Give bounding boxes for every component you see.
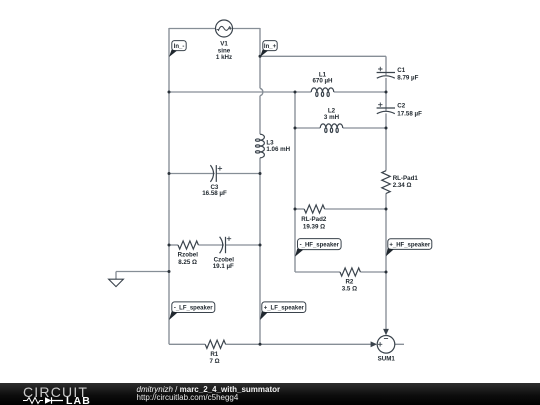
- svg-text:2.34 Ω: 2.34 Ω: [393, 182, 412, 189]
- arrowhead SUM1 left input: [371, 341, 377, 347]
- inductor L3: [256, 134, 265, 158]
- svg-text:16.58 µF: 16.58 µF: [202, 190, 227, 197]
- svg-text:In_-: In_-: [174, 44, 185, 50]
- wire In+ rail upper x=260: [259, 28, 261, 88]
- wire column x=295: [294, 92, 296, 272]
- label L1 value: [312, 71, 333, 84]
- wire In+ rail lower x=260: [259, 158, 261, 344]
- wire top-right V1 to In+ rail: [232, 28, 260, 30]
- svg-text:In_+: In_+: [264, 44, 277, 50]
- CircuitLab logo: [23, 384, 88, 400]
- resistor RL-Pad2: [304, 205, 324, 213]
- wire C1 upper lead: [385, 56, 387, 75]
- svg-text:7 Ω: 7 Ω: [209, 358, 219, 365]
- svg-text:RL-Pad2: RL-Pad2: [301, 216, 327, 223]
- label Czobel value: [213, 257, 234, 270]
- resistor RL-Pad1: [382, 171, 390, 194]
- inductor L1: [311, 88, 334, 97]
- capacitor Czobel: [220, 237, 232, 254]
- resistor R1: [205, 340, 225, 348]
- wire L1 row right segment: [334, 91, 386, 93]
- wire C1 top branch y=56: [260, 55, 386, 57]
- svg-text:+_HF_speaker: +_HF_speaker: [389, 242, 431, 248]
- svg-text:8.79 µF: 8.79 µF: [397, 75, 418, 82]
- summer SUM1: [377, 336, 395, 354]
- wire C2 to RL-Pad1: [385, 113, 387, 170]
- wire RL-Pad1 to RL-Pad2 row: [385, 193, 387, 209]
- wire bottom row to SUM1: [260, 343, 371, 345]
- label L3 value: [266, 139, 290, 153]
- svg-text:19.1 µF: 19.1 µF: [213, 263, 234, 270]
- inductor L2: [320, 124, 343, 133]
- svg-text:C1: C1: [397, 67, 405, 74]
- wire zobel row left segment: [169, 244, 178, 246]
- svg-text:8.25 Ω: 8.25 Ω: [178, 259, 197, 266]
- label C1 value: [397, 67, 418, 82]
- wire hop over L1 row on x=260 rail: [260, 88, 263, 95]
- svg-text:19.39 Ω: 19.39 Ω: [303, 223, 325, 230]
- label RL-Pad2 value: [301, 216, 327, 231]
- label C3 value: [202, 184, 227, 197]
- svg-text:-_LF_speaker: -_LF_speaker: [174, 305, 213, 311]
- label R2 value: [342, 278, 357, 292]
- svg-text:+_LF_speaker: +_LF_speaker: [264, 305, 305, 311]
- capacitor C2: [377, 103, 395, 114]
- label L2 value: [324, 107, 340, 121]
- arrowhead SUM1 top input: [383, 329, 389, 335]
- wire L2 row left segment: [295, 127, 320, 129]
- capacitor C3: [210, 165, 222, 182]
- svg-text:17.58 µF: 17.58 µF: [397, 110, 422, 117]
- wire RL-Pad2 row to R2 row: [385, 209, 387, 272]
- wire ground stem: [115, 272, 117, 280]
- label RL-Pad1 value: [393, 175, 419, 189]
- resistor Rzobel: [178, 241, 198, 249]
- wire bottom row left segment: [169, 343, 205, 345]
- wire left rail x=169: [168, 28, 170, 344]
- svg-text:R1: R1: [210, 351, 218, 358]
- source V1: [216, 20, 233, 37]
- wire R2 row to SUM1: [385, 272, 387, 329]
- label C2 value: [397, 103, 422, 118]
- node flag -_LF_speaker: [169, 302, 215, 320]
- wire L1 row left segment: [169, 91, 311, 93]
- svg-text:SUM1: SUM1: [378, 356, 396, 363]
- label Rzobel value: [178, 252, 199, 266]
- node flag In_-: [169, 41, 186, 57]
- wire top-left V1 to left rail: [169, 28, 216, 30]
- wire zobel row middle segment: [198, 244, 224, 246]
- wire zobel row right segment: [226, 244, 261, 246]
- svg-text:1 kHz: 1 kHz: [216, 54, 232, 61]
- svg-text:3.5 Ω: 3.5 Ω: [342, 286, 357, 293]
- capacitor C1: [377, 67, 395, 78]
- wire SUM1 output stub: [395, 343, 404, 345]
- wire C3 row right segment: [216, 173, 260, 175]
- label R1 value: [209, 351, 219, 365]
- svg-text:Rzobel: Rzobel: [178, 252, 199, 259]
- wire C3 row left segment: [169, 173, 215, 175]
- wire bottom row middle segment: [226, 343, 260, 345]
- wire RL-Pad2 row right segment: [325, 208, 386, 210]
- ground: [109, 279, 124, 286]
- svg-text:3 mH: 3 mH: [324, 114, 340, 121]
- footer bar: [0, 383, 540, 405]
- node flag +_LF_speaker: [260, 302, 306, 320]
- wire C1-C2 link: [385, 78, 387, 111]
- svg-text:RL-Pad1: RL-Pad1: [393, 175, 419, 182]
- svg-text:R2: R2: [345, 278, 353, 285]
- label V1 value: [216, 40, 232, 61]
- wire L2 row right segment: [343, 127, 386, 129]
- resistor R2: [340, 268, 360, 276]
- node flag In_+: [260, 41, 277, 57]
- wire RL-Pad2 row left segment: [295, 208, 304, 210]
- node flag +_HF_speaker: [386, 239, 432, 256]
- svg-text:C2: C2: [397, 103, 405, 110]
- svg-text:670 µH: 670 µH: [312, 78, 333, 85]
- svg-text:-_HF_speaker: -_HF_speaker: [300, 242, 340, 248]
- wire In+ rail mid x=260: [259, 96, 261, 135]
- wire R2 row right segment: [360, 271, 386, 273]
- wire R2 row left segment: [295, 271, 340, 273]
- node flag -_HF_speaker: [295, 239, 341, 257]
- wire ground branch horizontal: [116, 271, 169, 273]
- svg-text:1.06 mH: 1.06 mH: [266, 146, 290, 153]
